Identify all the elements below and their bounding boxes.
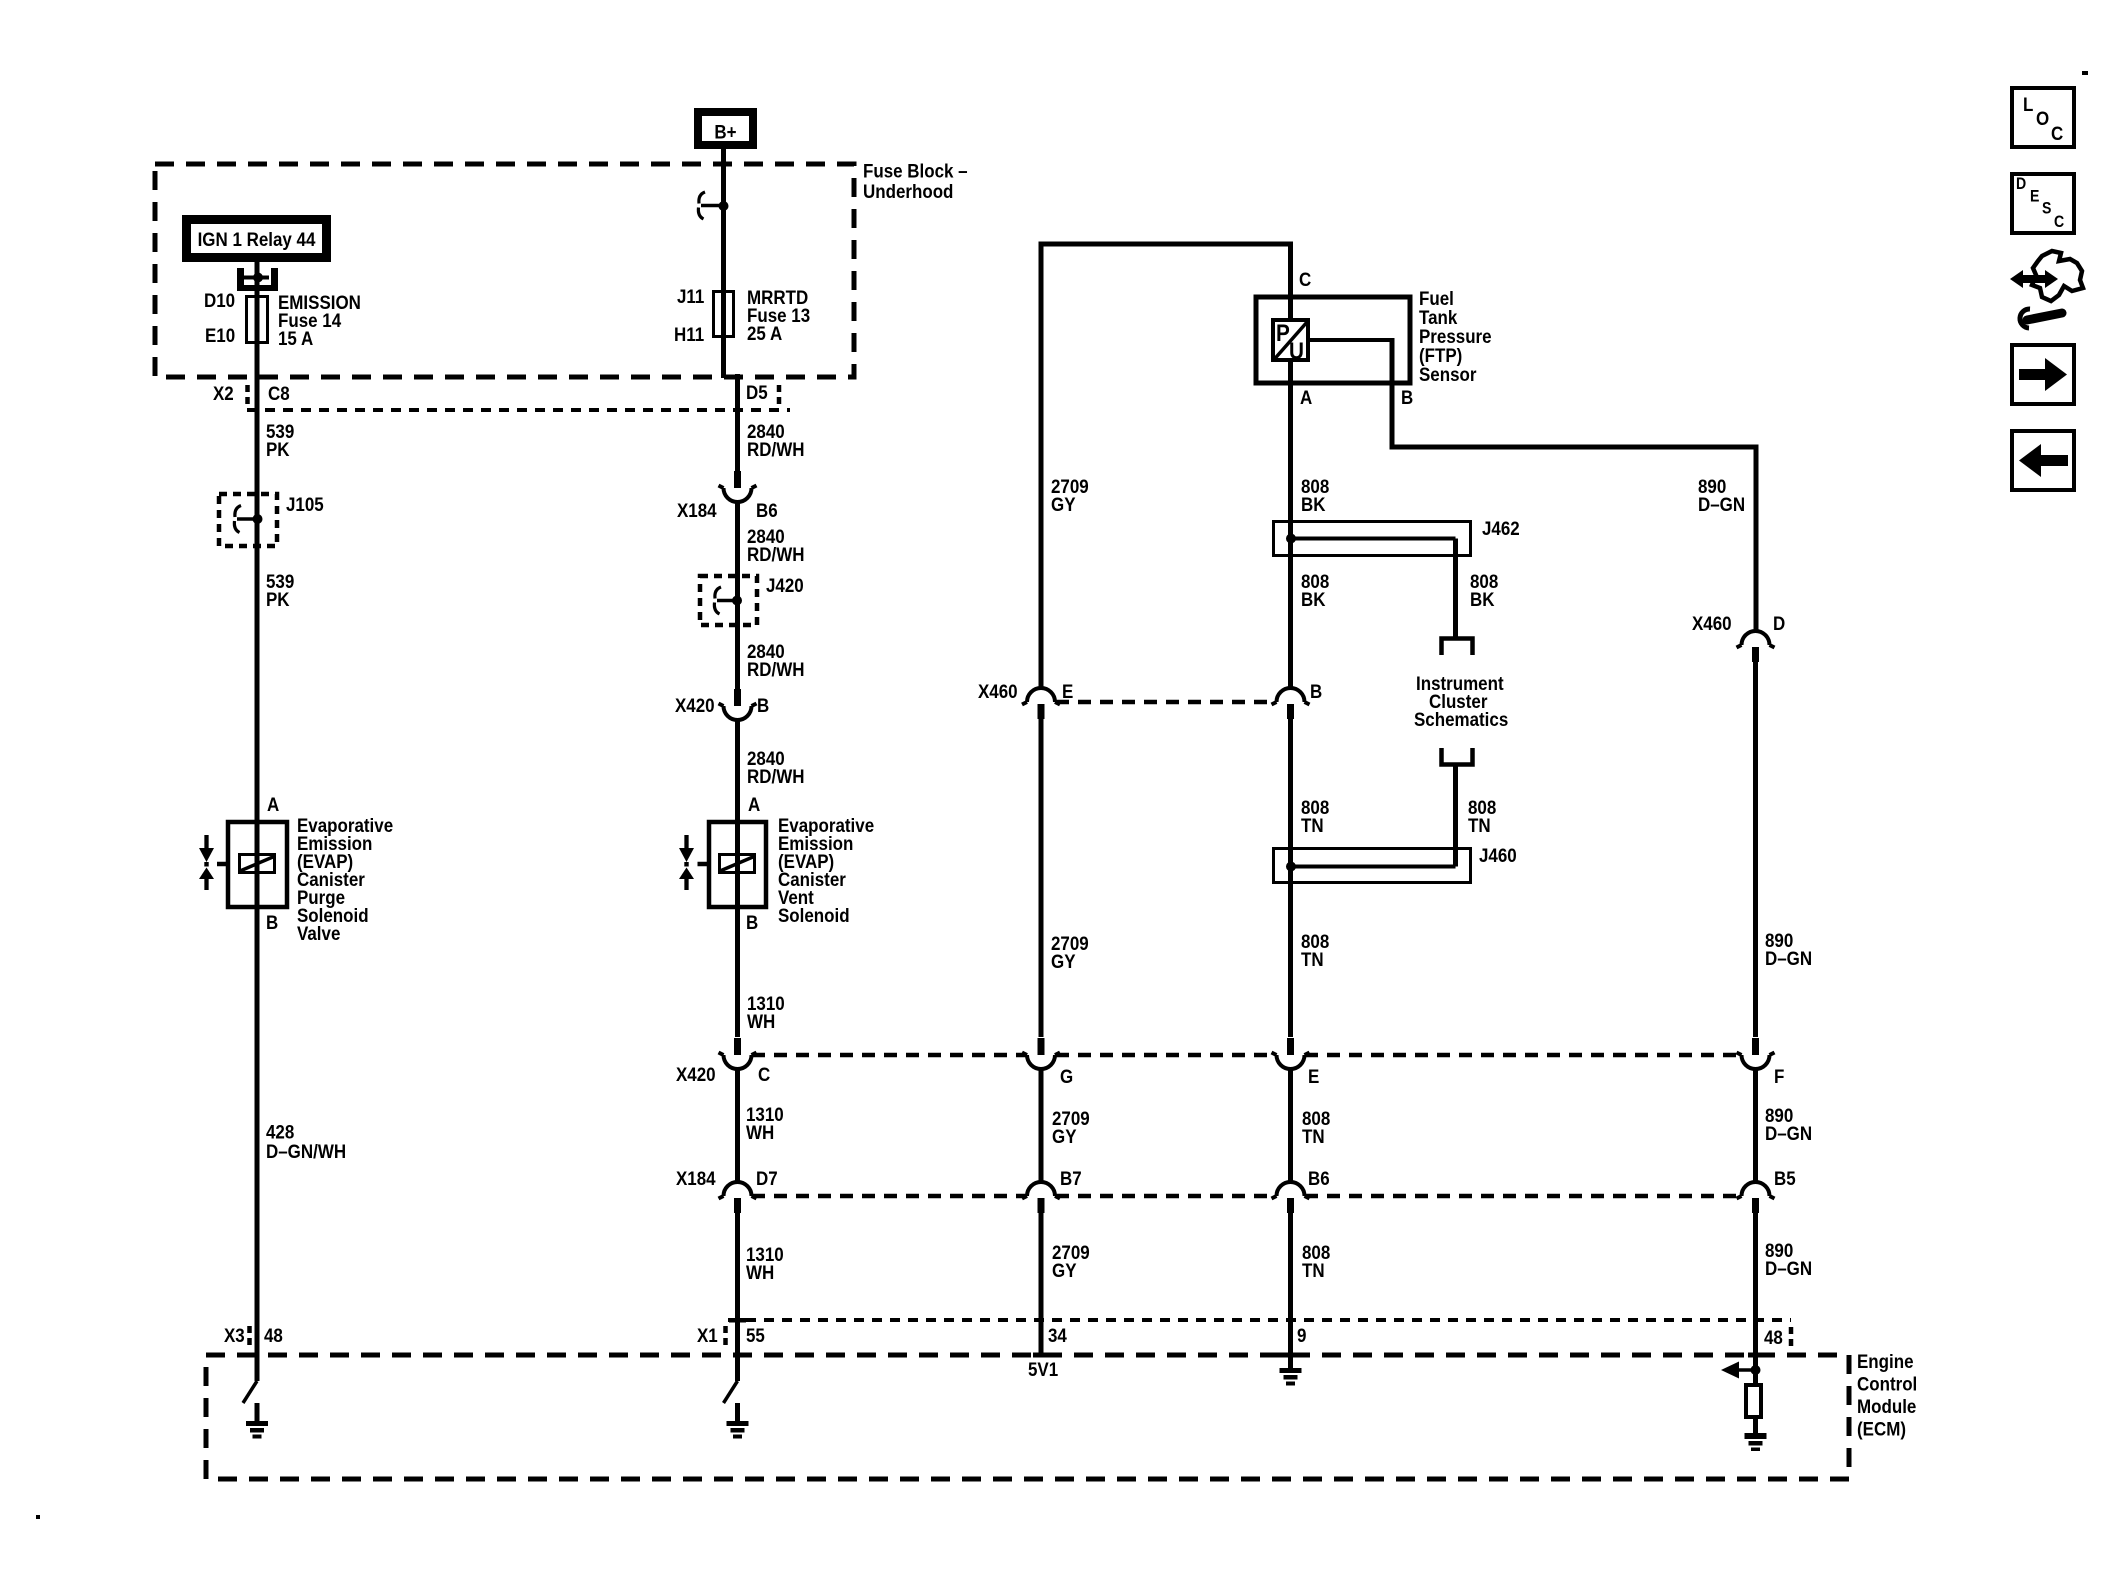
svg-text:TN: TN: [1301, 948, 1324, 970]
coil diagonal (vent): [720, 857, 754, 872]
vent solenoid name label: [778, 814, 874, 926]
svg-text:D: D: [2016, 175, 2026, 193]
fuse block - underhood dashed box: [155, 164, 854, 377]
svg-text:TN: TN: [1302, 1125, 1325, 1147]
FTP pin labels A and B: [1300, 386, 1413, 408]
X2 label separator: [245, 385, 250, 404]
branch wire 808 TN from cluster (vertical): [1453, 765, 1458, 867]
svg-text:B: B: [746, 911, 758, 933]
svg-text:E: E: [1308, 1065, 1319, 1087]
off-page bracket from instrument cluster (bottom): [1442, 748, 1473, 765]
connector X420 dashed line (C-G-E-F): [752, 1053, 1741, 1058]
coil stub to valve (vent): [698, 862, 710, 867]
svg-text:RD/WH: RD/WH: [747, 438, 804, 460]
relay output terminal cup: [237, 268, 278, 291]
wire 808 BK from FTP pin A (vertical): [1288, 385, 1293, 688]
splice J105 dashed box: [219, 494, 277, 546]
wire C inside FTP sensor: [1288, 295, 1293, 320]
svg-text:D: D: [1773, 612, 1785, 634]
vent solenoid coil: [720, 855, 755, 873]
terminal tick: [701, 204, 720, 208]
svg-text:Sensor: Sensor: [1419, 363, 1476, 385]
svg-text:A: A: [1300, 386, 1312, 408]
svg-text:D–GN: D–GN: [1765, 1257, 1812, 1279]
svg-text:D–GN: D–GN: [1698, 493, 1745, 515]
svg-text:5V1: 5V1: [1028, 1358, 1058, 1380]
svg-text:F: F: [1774, 1065, 1784, 1087]
svg-text:Module: Module: [1857, 1395, 1916, 1417]
connector X2 C8 labels: [213, 382, 290, 404]
terminal tick J105: [237, 517, 255, 521]
svg-text:X420: X420: [675, 694, 715, 716]
svg-text:J105: J105: [286, 493, 324, 515]
wire label 890 D-GN (2): [1765, 929, 1812, 969]
svg-text:X184: X184: [676, 1167, 716, 1189]
wire label 1310 WH (3): [746, 1243, 784, 1283]
internal signal arrow (pin 48): [1721, 1362, 1756, 1379]
svg-text:P: P: [1276, 320, 1290, 347]
wire 2709 GY (4) to ECM pin 34 (vertical): [1039, 1212, 1044, 1355]
icon box forward arrow: [2012, 345, 2074, 404]
svg-text:B7: B7: [1060, 1167, 1082, 1189]
svg-text:BK: BK: [1301, 493, 1326, 515]
svg-text:D10: D10: [204, 289, 235, 311]
svg-text:C: C: [1299, 268, 1311, 290]
svg-text:GY: GY: [1051, 950, 1075, 972]
svg-text:X460: X460: [1692, 612, 1732, 634]
svg-text:X2: X2: [213, 382, 234, 404]
svg-text:B6: B6: [1308, 1167, 1330, 1189]
svg-text:A: A: [267, 793, 279, 815]
wire label 428 D-GN/WH: [266, 1120, 346, 1162]
svg-text:L: L: [2023, 93, 2033, 115]
fuse EMISSION Fuse 14 15A: [247, 297, 268, 343]
wire 2840 RD/WH from fuse block (vertical): [735, 374, 740, 471]
icon box DESC: [2012, 174, 2074, 233]
splice J420 terminal hooks: [714, 587, 721, 614]
P/U transducer box: [1273, 320, 1308, 360]
wire 808 TN (4) to ECM pin 9 (vertical): [1288, 1212, 1293, 1368]
back arrow: [2019, 444, 2068, 477]
splice J105 terminal hooks: [234, 506, 241, 533]
svg-text:BK: BK: [1470, 588, 1495, 610]
svg-text:BK: BK: [1301, 588, 1326, 610]
svg-text:X420: X420: [676, 1063, 716, 1085]
svg-text:E: E: [1062, 680, 1073, 702]
fuse block terminal hooks at B+ feed: [698, 192, 705, 219]
fuse 13 pin labels: [674, 285, 704, 345]
tiny page mark bottom left: [36, 1515, 40, 1519]
in-line connector X184 D7: [719, 1182, 757, 1213]
svg-text:J11: J11: [677, 285, 704, 307]
wire A inside FTP sensor: [1288, 360, 1293, 385]
FTP sensor name label: [1419, 287, 1492, 385]
svg-text:55: 55: [746, 1324, 765, 1346]
wire 2709 GY (3) (vertical): [1039, 1069, 1044, 1182]
ECM label: [1857, 1350, 1917, 1440]
wire 2709 GY (vertical mid): [1039, 718, 1044, 1037]
svg-text:O: O: [2036, 107, 2049, 129]
svg-text:C: C: [758, 1063, 770, 1085]
svg-text:RD/WH: RD/WH: [747, 543, 804, 565]
connector X184 B6 labels: [677, 499, 778, 521]
ECM connector row dotted line (X1): [728, 1318, 1791, 1322]
svg-text:Underhood: Underhood: [863, 180, 953, 202]
svg-text:B: B: [757, 694, 769, 716]
wire label 890 D-GN (4): [1765, 1239, 1812, 1279]
junction dot on B+ feed: [719, 201, 729, 211]
icon box LOC: [2012, 88, 2074, 147]
wire label 1310 WH (2): [746, 1103, 784, 1143]
ground inside ECM (pin 48): [1745, 1433, 1767, 1451]
svg-text:J420: J420: [766, 574, 804, 596]
svg-text:(ECM): (ECM): [1857, 1417, 1906, 1439]
purge solenoid coil: [240, 855, 275, 873]
tick at X1 row crossing: [729, 1318, 746, 1323]
in-line connector X420 C: [719, 1038, 757, 1069]
X3 label separator: [247, 1326, 252, 1348]
valve arrows (vent): [679, 835, 694, 890]
svg-text:Engine: Engine: [1857, 1350, 1914, 1372]
svg-text:D7: D7: [756, 1167, 778, 1189]
wire left column 539 PK / 428 D-GN/WH (vertical): [255, 262, 260, 1381]
wire label 539 PK (lower): [266, 570, 294, 610]
wire label 2840 RD/WH (2): [747, 525, 804, 565]
wire label 2709 GY (3): [1052, 1107, 1090, 1147]
svg-text:D–GN: D–GN: [1765, 1122, 1812, 1144]
wire labels 808 BK below J462: [1301, 570, 1498, 610]
svg-text:48: 48: [264, 1324, 283, 1346]
wire 890 signal from FTP pin B (down, right, down): [1392, 338, 1756, 631]
svg-text:RD/WH: RD/WH: [747, 658, 804, 680]
branch wire to instrument cluster (vertical): [1453, 539, 1458, 638]
D5 label separator: [777, 385, 782, 404]
wire label 808 BK (1): [1301, 475, 1329, 515]
tiny page mark top right: [2082, 71, 2088, 75]
wire B+ feed down to fuse block (vertical): [721, 149, 726, 378]
splice pack J462 box: [1274, 522, 1471, 556]
connector X184 dashed line (D7-B7-B6-B5): [752, 1194, 1741, 1199]
svg-text:WH: WH: [747, 1010, 775, 1032]
svg-text:TN: TN: [1301, 814, 1324, 836]
svg-text:X3: X3: [224, 1324, 245, 1346]
wire label 890 D-GN (3): [1765, 1104, 1812, 1144]
svg-text:TN: TN: [1468, 814, 1491, 836]
svg-text:IGN 1 Relay 44: IGN 1 Relay 44: [198, 228, 317, 250]
tick at ECM boundary pin 34: [1033, 1353, 1049, 1358]
svg-text:D–GN/WH: D–GN/WH: [266, 1140, 346, 1162]
junction dot J462: [1286, 534, 1296, 544]
connector X460 E labels: [978, 680, 1073, 702]
in-line connector X420 G: [1022, 1038, 1060, 1069]
svg-text:WH: WH: [746, 1121, 774, 1143]
svg-text:25 A: 25 A: [747, 322, 782, 344]
svg-text:D5: D5: [746, 381, 768, 403]
splice J420 dashed box: [700, 576, 757, 625]
svg-text:TN: TN: [1302, 1259, 1325, 1281]
svg-text:Schematics: Schematics: [1414, 708, 1508, 730]
junction dot J420: [732, 596, 742, 606]
svg-text:X1: X1: [697, 1324, 718, 1346]
connector X460 dashed line (E-B): [1056, 700, 1275, 705]
wire label 2709 GY (1): [1051, 475, 1089, 515]
resistor inside ECM: [1746, 1385, 1761, 1417]
in-line connector X420 E: [1272, 1038, 1310, 1069]
svg-text:GY: GY: [1052, 1125, 1076, 1147]
svg-text:E: E: [2030, 188, 2039, 206]
fuse 13 name labels: [747, 286, 810, 344]
wire 1310 WH (3) to ECM (vertical): [735, 1212, 740, 1381]
EVAP canister vent solenoid box: [709, 822, 766, 907]
svg-text:Fuse Block –: Fuse Block –: [863, 159, 968, 181]
svg-text:9: 9: [1297, 1324, 1306, 1346]
wire label 890 D-GN (1): [1698, 475, 1745, 515]
wire 890 D-GN (4) to ECM pin 48 (vertical): [1753, 1212, 1758, 1385]
junction dot J105: [253, 514, 263, 524]
svg-text:GY: GY: [1051, 493, 1075, 515]
connector X1 pin 55 labels: [697, 1324, 765, 1346]
svg-text:B6: B6: [756, 499, 778, 521]
wire label 539 PK (upper): [266, 420, 294, 460]
in-line connector X184 B6 (lower): [1272, 1182, 1310, 1213]
svg-text:B5: B5: [1774, 1167, 1796, 1189]
svg-text:Valve: Valve: [297, 922, 340, 944]
wire label 2709 GY (4): [1052, 1241, 1090, 1281]
fuse block connector row dashed line (X2/C8/D5): [247, 408, 790, 412]
in-line connector X420 B: [719, 689, 757, 720]
EVAP canister purge solenoid valve box: [228, 822, 287, 907]
svg-text:Solenoid: Solenoid: [778, 904, 850, 926]
wire 808 TN (3) (vertical): [1288, 1069, 1293, 1182]
svg-text:RD/WH: RD/WH: [747, 765, 804, 787]
wire label 2840 RD/WH (3): [747, 640, 804, 680]
terminal tick J420: [717, 599, 734, 603]
in-line connector X460 B: [1272, 688, 1310, 719]
svg-text:PK: PK: [266, 438, 290, 460]
svg-text:H11: H11: [674, 323, 704, 345]
engine control module (ECM) dashed box: [206, 1355, 1849, 1479]
splice pack J460 box: [1274, 849, 1471, 883]
relay box IGN 1 Relay 44: [187, 220, 327, 258]
purge solenoid name label: [297, 814, 393, 944]
svg-text:S: S: [2042, 200, 2051, 218]
pin 48 label separator: [1789, 1327, 1794, 1347]
ECM driver switch slash (X3-48): [243, 1381, 257, 1403]
svg-text:D–GN: D–GN: [1765, 947, 1812, 969]
fuse 14 pin labels: [204, 289, 235, 346]
svg-text:C8: C8: [268, 382, 290, 404]
svg-text:X460: X460: [978, 680, 1018, 702]
coil stub to valve: [217, 862, 227, 867]
P/U diagonal: [1275, 322, 1308, 360]
wire label 808 TN (2): [1301, 930, 1329, 970]
in-line connector X184 B6: [719, 471, 757, 502]
svg-text:X184: X184: [677, 499, 717, 521]
fuse 14 name labels: [278, 291, 361, 349]
wire label 808 TN (4): [1302, 1241, 1330, 1281]
connector X420 C labels: [676, 1063, 770, 1085]
wire label 808 TN (3): [1302, 1107, 1330, 1147]
J460 internal branch (horizontal): [1291, 865, 1456, 869]
connector X3 pin 48 labels: [224, 1324, 283, 1346]
svg-text:C: C: [2054, 213, 2064, 231]
icon box back arrow: [2012, 431, 2074, 490]
ground inside ECM (X1-55): [735, 1403, 740, 1421]
in-line connector X460 D: [1737, 631, 1775, 662]
instrument cluster schematics label: [1414, 672, 1508, 730]
J462 internal branch (horizontal): [1291, 537, 1456, 541]
ground inside ECM (X3-48): [255, 1403, 260, 1421]
svg-text:15 A: 15 A: [278, 327, 313, 349]
wire 808 TN (vertical mid): [1288, 718, 1293, 1037]
svg-text:WH: WH: [746, 1261, 774, 1283]
coil diagonal: [240, 857, 274, 872]
forward arrow: [2019, 358, 2067, 391]
svg-text:B: B: [1401, 386, 1413, 408]
svg-text:Control: Control: [1857, 1372, 1917, 1394]
wire label 1310 WH (1): [747, 992, 785, 1032]
svg-text:PK: PK: [266, 588, 290, 610]
valve arrows (purge): [199, 835, 214, 890]
icon harness routing with tool: [2010, 251, 2083, 328]
DESC letters: [2016, 175, 2064, 231]
ECM driver switch slash (X1-55): [724, 1381, 738, 1403]
wire resistor to ground: [1753, 1417, 1758, 1433]
wire 2840/1310 through vent solenoid (vertical): [735, 720, 740, 1037]
tick at ECM boundary pin 9: [1276, 1353, 1290, 1358]
fuel tank pressure FTP sensor box: [1256, 297, 1410, 383]
junction dot at arrow: [1751, 1365, 1761, 1375]
P/U output wire to pin B (horizontal): [1308, 338, 1392, 342]
wire 890 D-GN (3) (vertical): [1753, 1069, 1758, 1182]
ground inside ECM (pin 9): [1280, 1368, 1302, 1386]
svg-text:C: C: [2051, 122, 2063, 144]
svg-text:G: G: [1060, 1065, 1073, 1087]
svg-text:GY: GY: [1052, 1259, 1076, 1281]
X1 label separator: [723, 1326, 728, 1348]
wire 5V ref feed to FTP sensor (top horizontal): [1041, 244, 1291, 688]
svg-text:B+: B+: [714, 120, 736, 142]
svg-text:E10: E10: [205, 324, 235, 346]
wire label 2709 GY (2): [1051, 932, 1089, 972]
svg-text:B: B: [1310, 680, 1322, 702]
connector X420 B labels: [675, 694, 769, 716]
wire label 2840 RD/WH (1): [747, 420, 804, 460]
wire 1310 WH (2) (vertical): [735, 1069, 740, 1182]
svg-text:A: A: [748, 793, 760, 815]
in-line connector X460 E: [1022, 688, 1060, 719]
svg-text:34: 34: [1048, 1324, 1068, 1346]
fuse MRRTD Fuse 13 25A: [714, 292, 734, 337]
wire labels 808 TN above J460: [1301, 796, 1496, 836]
in-line connector X184 B7: [1022, 1182, 1060, 1213]
tick at ECM boundary pin 48: [1748, 1353, 1765, 1358]
junction dot relay terminal: [253, 273, 263, 283]
svg-text:J460: J460: [1479, 844, 1517, 866]
in-line connector X184 B5: [1737, 1182, 1775, 1213]
connector X460 D labels: [1692, 612, 1785, 634]
LOC letters: [2023, 93, 2063, 144]
wire 2840 RD/WH (2) (vertical): [735, 502, 740, 689]
wire 890 D-GN (2) (vertical): [1753, 661, 1758, 1037]
wire label 2840 RD/WH (4): [747, 747, 804, 787]
in-line connector X420 F: [1737, 1038, 1775, 1069]
off-page bracket to instrument cluster (top): [1442, 639, 1473, 656]
connector X184 D7 labels: [676, 1167, 778, 1189]
svg-text:48: 48: [1764, 1326, 1783, 1348]
battery feed B+ box: [698, 112, 753, 145]
svg-text:B: B: [266, 911, 278, 933]
svg-text:J462: J462: [1482, 517, 1520, 539]
junction dot J460: [1286, 862, 1296, 872]
